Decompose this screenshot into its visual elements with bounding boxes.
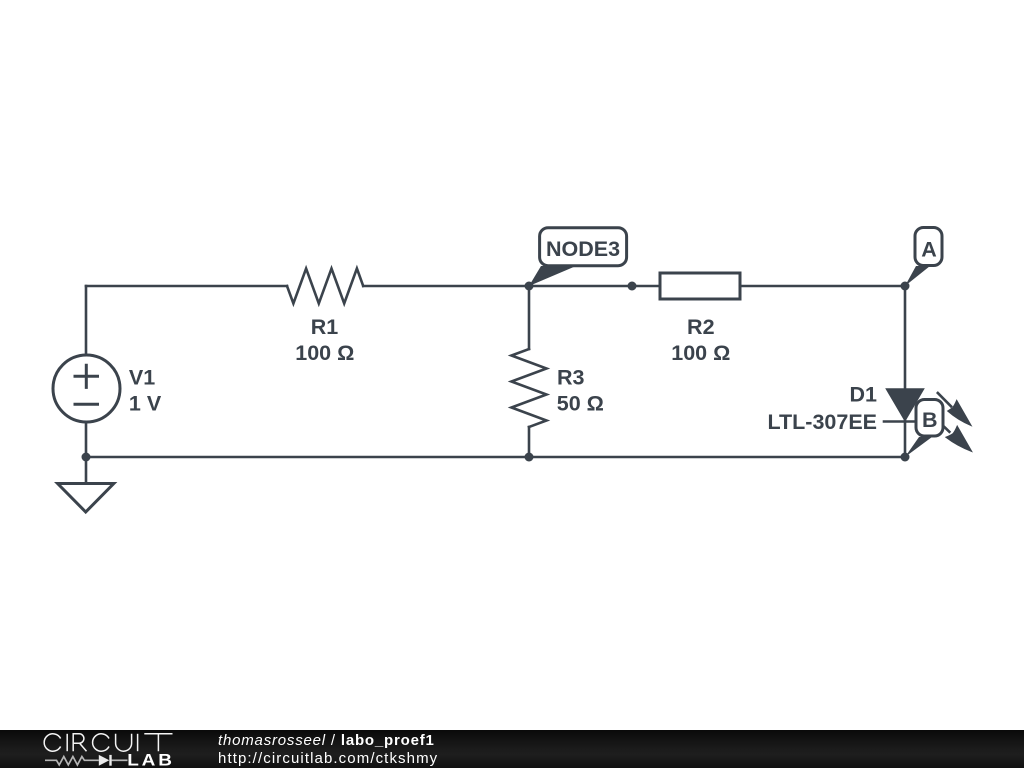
- svg-text:A: A: [921, 237, 937, 261]
- LED D1 cathode bar + label dash: [884, 420, 924, 423]
- resistor R3: [512, 349, 547, 427]
- wire R2 to node A corner: [740, 285, 905, 288]
- resistor R3 bottom lead: [528, 427, 531, 457]
- svg-text:R1: R1: [311, 315, 339, 339]
- node B callout box: [916, 400, 943, 437]
- svg-text:NODE3: NODE3: [546, 237, 620, 261]
- wire left vertical to V1: [85, 286, 88, 355]
- V1 minus sign: [75, 403, 98, 406]
- resistor R1: [287, 269, 363, 304]
- node B callout wedge: [905, 437, 932, 457]
- svg-text:LAB: LAB: [127, 750, 175, 768]
- svg-text:R2: R2: [687, 315, 715, 339]
- logo resistor glyph: [45, 756, 99, 764]
- resistor R3 top lead: [528, 286, 531, 349]
- junction dot R2 left: [628, 282, 637, 291]
- svg-text:50 Ω: 50 Ω: [557, 392, 604, 416]
- node A callout box: [915, 228, 942, 266]
- svg-text:R3: R3: [557, 366, 585, 390]
- junction dot node B: [901, 453, 910, 462]
- ground triangle: [58, 484, 114, 513]
- wire right vertical bottom (LED to B node): [904, 421, 907, 457]
- logo CIRCUIT letters (hand drawn strokes): [44, 733, 172, 750]
- svg-text:D1: D1: [850, 383, 878, 407]
- svg-text:V1: V1: [129, 366, 155, 390]
- node NODE3 callout box: [540, 228, 627, 266]
- node NODE3 callout wedge: [529, 266, 576, 286]
- voltage source V1 circle: [53, 355, 120, 422]
- junction dot V1/ground: [82, 453, 91, 462]
- junction dot node A: [901, 282, 910, 291]
- svg-text:thomasrosseel / labo_proef1: thomasrosseel / labo_proef1: [218, 732, 435, 749]
- ground stub: [85, 457, 88, 484]
- footer bar: [0, 730, 1024, 768]
- wire NODE3 to R2: [529, 285, 660, 288]
- wire right vertical top (A to LED): [904, 286, 907, 390]
- resistor R2 body: [660, 273, 740, 299]
- svg-text:LTL-307EE: LTL-307EE: [767, 410, 877, 434]
- wire R1 to NODE3 junction: [363, 285, 529, 288]
- junction dot R3 bottom: [525, 453, 534, 462]
- wire top-left horizontal: [86, 285, 287, 288]
- logo diode glyph: [99, 754, 110, 765]
- LED light arrow 1: [937, 392, 971, 426]
- svg-text:1 V: 1 V: [129, 392, 162, 416]
- svg-text:100 Ω: 100 Ω: [295, 341, 354, 365]
- junction dot NODE3: [525, 282, 534, 291]
- V1 plus sign: [75, 365, 98, 387]
- svg-text:B: B: [922, 408, 938, 432]
- wire bottom horizontal: [86, 456, 905, 459]
- LED D1 triangle: [887, 389, 924, 421]
- LED light arrow 2: [938, 421, 972, 452]
- wire V1 bottom to ground node: [85, 422, 88, 457]
- svg-text:100 Ω: 100 Ω: [671, 341, 730, 365]
- node A callout wedge: [905, 266, 930, 286]
- svg-text:http://circuitlab.com/ctkshmy: http://circuitlab.com/ctkshmy: [218, 750, 438, 767]
